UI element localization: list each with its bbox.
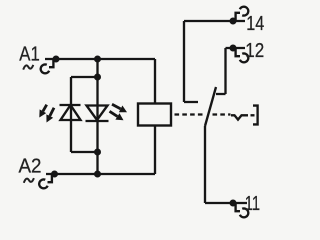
- svg-text:14: 14: [246, 13, 264, 35]
- svg-text:12: 12: [245, 40, 264, 62]
- svg-text:A2: A2: [19, 156, 42, 178]
- svg-text:A1: A1: [19, 44, 40, 66]
- svg-text:11: 11: [245, 193, 260, 215]
